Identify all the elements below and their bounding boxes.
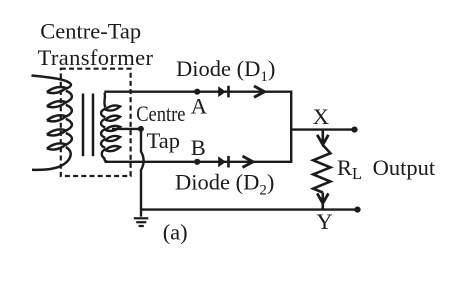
svg-text:B: B	[191, 135, 206, 160]
svg-text:Centre: Centre	[136, 101, 185, 126]
svg-text:Transformer: Transformer	[38, 45, 154, 70]
svg-text:Y: Y	[316, 209, 332, 234]
svg-text:Diode (D1): Diode (D1)	[176, 56, 275, 85]
svg-text:RL: RL	[337, 155, 362, 183]
svg-text:A: A	[191, 94, 208, 119]
svg-text:Diode (D2): Diode (D2)	[175, 170, 274, 199]
svg-text:Output: Output	[373, 155, 436, 180]
svg-text:X: X	[313, 104, 329, 129]
svg-text:Tap: Tap	[147, 128, 180, 153]
svg-text:(a): (a)	[163, 220, 188, 245]
svg-text:Centre-Tap: Centre-Tap	[40, 18, 141, 43]
